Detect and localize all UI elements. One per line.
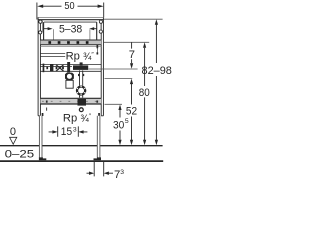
legs	[39, 116, 42, 158]
drain outlet circle	[79, 108, 83, 112]
trap valve	[65, 73, 74, 81]
floor line B (raw floor)	[0, 160, 163, 162]
screw tick below rail2	[45, 108, 48, 111]
svg-text:5: 5	[125, 118, 129, 125]
rail 2 (lower rail)	[40, 98, 101, 104]
dim line 7	[131, 42, 133, 63]
supply pipe line across	[40, 65, 101, 72]
dim line 52	[131, 84, 133, 140]
floor line A (finished floor)	[0, 145, 163, 147]
corner screws	[39, 20, 103, 34]
Rp 3/4 upper label leaders	[40, 54, 65, 57]
svg-text:15: 15	[61, 126, 72, 138]
cross fixture	[56, 65, 64, 72]
svg-text:3: 3	[120, 169, 124, 176]
svg-text:Rp ¾″: Rp ¾″	[63, 112, 92, 124]
dimension 7-3 bottom	[87, 162, 114, 177]
frame side rails	[38, 18, 103, 116]
right wall fitting ticks	[97, 45, 99, 55]
feet	[39, 157, 101, 160]
tee fitting	[73, 65, 88, 70]
rail 1 (upper meter rail)	[40, 40, 101, 45]
svg-text:50: 50	[64, 1, 75, 12]
svg-text:82–98: 82–98	[142, 65, 172, 77]
flange circle	[77, 87, 85, 95]
dimension 15-3	[49, 126, 88, 136]
rail 2 end marks	[46, 101, 98, 103]
svg-text:3: 3	[73, 126, 77, 133]
tap piece	[67, 62, 70, 72]
svg-text:5–38: 5–38	[59, 24, 82, 36]
leg top knobs	[42, 113, 44, 116]
dimension 5-38	[44, 22, 97, 40]
mounting slot lines	[44, 21, 97, 23]
dim line 80	[144, 48, 146, 140]
mounting plate verticals	[43, 20, 101, 40]
svg-text:80: 80	[139, 87, 150, 99]
svg-text:7: 7	[129, 49, 135, 61]
couplings on supply line	[43, 64, 54, 73]
dimension 50 top	[37, 3, 104, 20]
dim line 30-5	[119, 110, 121, 140]
svg-text:0: 0	[10, 126, 16, 138]
drain pipe vertical	[80, 70, 83, 97]
svg-text:0–25: 0–25	[5, 148, 35, 160]
right side extension lines	[88, 19, 162, 104]
svg-text:Rp ¾″: Rp ¾″	[66, 51, 95, 63]
dim line 82-98	[155, 25, 157, 141]
svg-text:30: 30	[113, 120, 124, 132]
svg-text:52: 52	[126, 106, 137, 118]
frame top	[38, 16, 104, 18]
drain fitting on rail2	[78, 99, 87, 106]
tee top stub	[80, 62, 83, 65]
